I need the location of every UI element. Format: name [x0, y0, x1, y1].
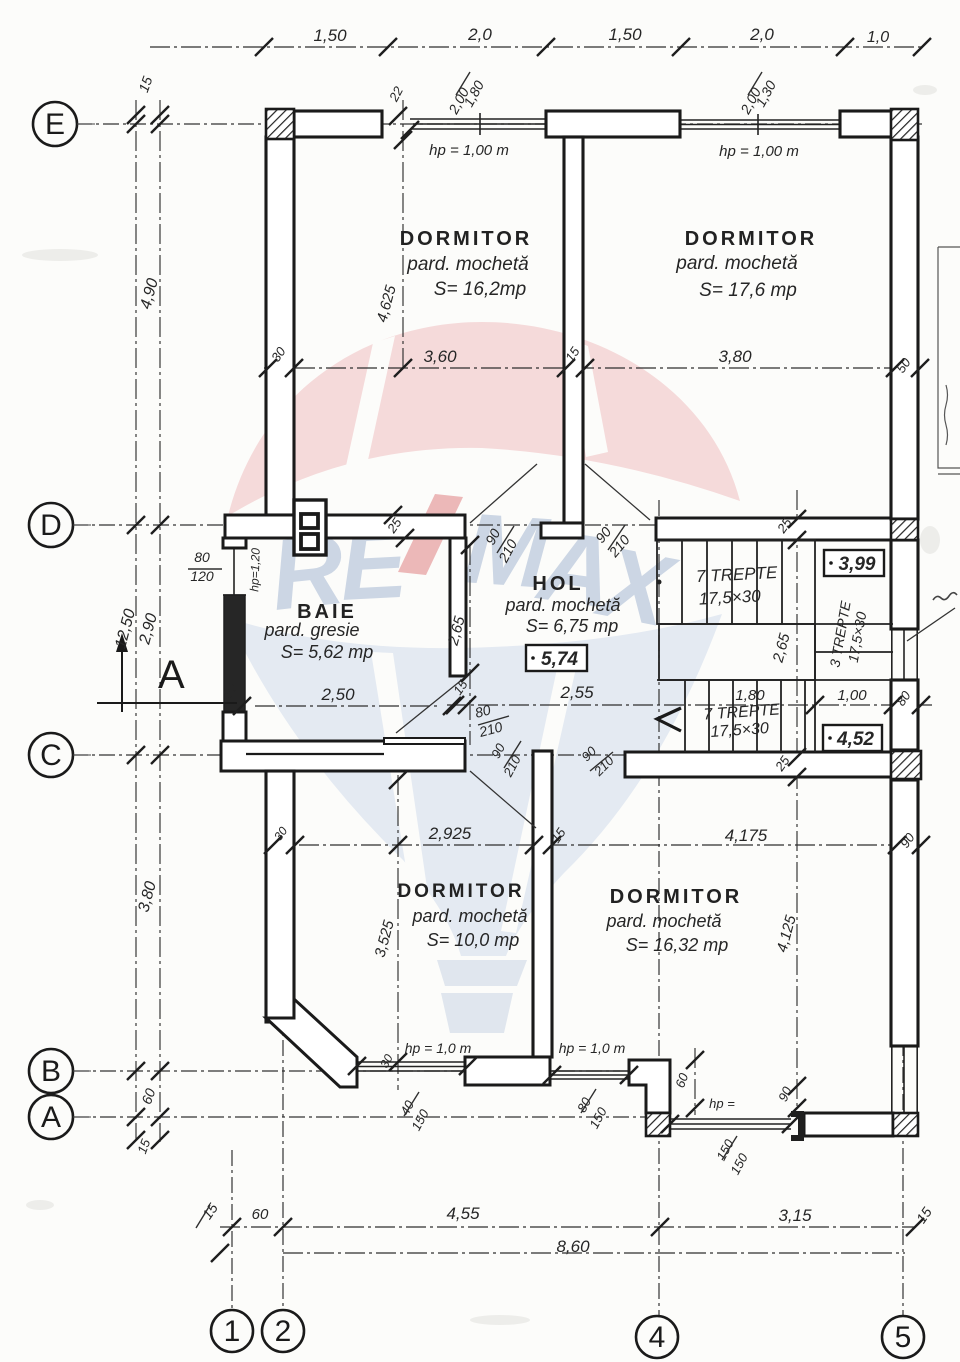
svg-text:S= 6,75 mp: S= 6,75 mp [526, 616, 619, 636]
svg-text:hp=1,20: hp=1,20 [247, 547, 263, 591]
svg-text:1,00: 1,00 [837, 687, 867, 704]
svg-text:2: 2 [275, 1315, 292, 1348]
svg-text:E: E [45, 108, 65, 141]
svg-text:1: 1 [224, 1315, 241, 1348]
svg-text:hp = 1,0 m: hp = 1,0 m [405, 1040, 472, 1056]
svg-text:1,50: 1,50 [608, 25, 642, 44]
svg-text:DORMITOR: DORMITOR [397, 881, 524, 902]
svg-text:pard. mochetă: pard. mochetă [406, 254, 528, 275]
svg-text:DORMITOR: DORMITOR [610, 886, 743, 908]
svg-text:4,175: 4,175 [725, 826, 768, 845]
svg-text:60: 60 [252, 1206, 269, 1223]
svg-text:4,52: 4,52 [836, 729, 874, 750]
svg-text:S= 5,62 mp: S= 5,62 mp [281, 642, 374, 662]
svg-text:A: A [41, 1101, 61, 1134]
svg-text:S= 16,32 mp: S= 16,32 mp [626, 935, 729, 955]
svg-text:80: 80 [194, 549, 210, 565]
svg-text:120: 120 [190, 568, 214, 584]
svg-text:8,60: 8,60 [556, 1237, 590, 1256]
svg-text:1,80: 1,80 [735, 687, 765, 704]
svg-text:17,5×30: 17,5×30 [698, 586, 761, 608]
svg-text:C: C [40, 739, 62, 772]
svg-text:2,0: 2,0 [749, 25, 774, 44]
svg-text:1,50: 1,50 [313, 26, 347, 45]
svg-text:D: D [40, 509, 62, 542]
svg-text:hp = 1,00 m: hp = 1,00 m [719, 143, 799, 160]
svg-text:A: A [158, 653, 185, 697]
svg-text:pard. mochetă: pard. mochetă [605, 911, 721, 931]
svg-text:2,55: 2,55 [559, 683, 594, 702]
svg-text:S= 17,6 mp: S= 17,6 mp [699, 280, 797, 301]
svg-text:HOL: HOL [532, 573, 583, 595]
svg-text:hp = 1,0 m: hp = 1,0 m [559, 1040, 626, 1056]
svg-text:3,99: 3,99 [839, 554, 876, 575]
svg-text:3,60: 3,60 [423, 347, 457, 366]
svg-text:3,80: 3,80 [718, 347, 752, 366]
svg-text:hp = 1,00 m: hp = 1,00 m [429, 142, 509, 159]
svg-text:4,55: 4,55 [446, 1204, 480, 1223]
svg-text:1,0: 1,0 [867, 29, 889, 46]
svg-text:hp =: hp = [709, 1096, 735, 1111]
svg-text:pard. gresie: pard. gresie [263, 620, 359, 640]
svg-text:S= 16,2mp: S= 16,2mp [434, 279, 526, 300]
svg-text:2,0: 2,0 [467, 25, 492, 44]
svg-text:5,74: 5,74 [541, 649, 578, 670]
svg-text:pard. mochetă: pard. mochetă [504, 595, 620, 615]
svg-text:2,50: 2,50 [320, 685, 355, 704]
svg-text:2,925: 2,925 [428, 824, 472, 843]
svg-text:DORMITOR: DORMITOR [685, 228, 818, 250]
svg-text:B: B [41, 1055, 61, 1088]
svg-text:DORMITOR: DORMITOR [400, 228, 533, 250]
svg-text:5: 5 [895, 1321, 912, 1354]
svg-text:pard. mochetă: pard. mochetă [675, 253, 797, 274]
svg-text:pard. mochetă: pard. mochetă [411, 906, 527, 926]
svg-text:4: 4 [649, 1321, 666, 1354]
svg-text:3,15: 3,15 [778, 1206, 812, 1225]
svg-text:S= 10,0 mp: S= 10,0 mp [427, 930, 520, 950]
